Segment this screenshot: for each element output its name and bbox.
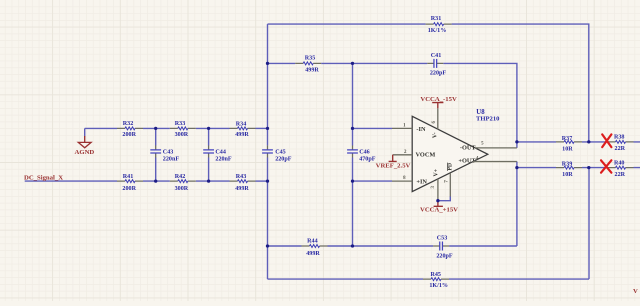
wire: R42-R43 bbox=[196, 180, 230, 182]
wire: pin7 to pin3 power jog bbox=[438, 197, 450, 201]
svg-text:10R: 10R bbox=[562, 172, 573, 178]
capacitor C53 bbox=[433, 235, 453, 259]
junction (352.5,246) bbox=[351, 244, 354, 247]
svg-text:R34: R34 bbox=[236, 122, 247, 128]
resistor R42 bbox=[170, 174, 196, 192]
svg-text:470pF: 470pF bbox=[359, 156, 376, 162]
junction (267.5,246) bbox=[266, 244, 269, 247]
junction (208.6,181.1) bbox=[207, 179, 210, 182]
svg-text:C43: C43 bbox=[163, 149, 174, 155]
svg-text:R38: R38 bbox=[614, 135, 625, 141]
wire: R44/C53 row bbox=[268, 245, 517, 247]
pin 8 +IN bbox=[392, 176, 412, 181]
svg-text:PD: PD bbox=[447, 163, 453, 171]
svg-text:-OUT: -OUT bbox=[460, 145, 477, 152]
junction (516.9,141.9) bbox=[515, 140, 518, 143]
svg-text:R35: R35 bbox=[305, 55, 316, 61]
wire: R45 row right vertical up to +OUT row bbox=[588, 168, 590, 280]
op-amp U8 designator labels bbox=[476, 109, 500, 123]
wire: C46 junction to +IN pin bbox=[353, 180, 393, 182]
svg-text:VCCA_-15V: VCCA_-15V bbox=[420, 96, 457, 103]
power port VREF_2.5V bbox=[376, 155, 411, 170]
resistor R44 bbox=[302, 239, 328, 258]
svg-text:C46: C46 bbox=[359, 149, 370, 155]
svg-text:THP210: THP210 bbox=[476, 115, 500, 122]
svg-text:10R: 10R bbox=[562, 147, 573, 153]
capacitor C44 bbox=[203, 145, 232, 162]
capacitor C45 bbox=[262, 145, 292, 162]
svg-text:VREF_2.5V: VREF_2.5V bbox=[376, 162, 411, 169]
wire: R35 to C41 bbox=[321, 62, 427, 64]
svg-text:DC_Signal_X: DC_Signal_X bbox=[24, 175, 63, 182]
wire: top feedback R31 run, right segment + right vertical to -OUT row bbox=[452, 24, 589, 142]
wire: R45 bottom row bbox=[268, 278, 590, 280]
junction (352.5,128.4) bbox=[351, 127, 354, 130]
svg-text:R40: R40 bbox=[614, 160, 625, 166]
pin 5 -OUT bbox=[475, 142, 517, 148]
svg-text:499R: 499R bbox=[306, 251, 320, 257]
svg-text:R37: R37 bbox=[562, 136, 573, 142]
junction (208.6,128.4) bbox=[207, 127, 210, 130]
svg-text:AGND: AGND bbox=[75, 149, 95, 156]
junction (437.9,200.7) bbox=[436, 199, 439, 202]
no-ERC marker X1 (R38) bbox=[602, 134, 611, 147]
svg-text:R43: R43 bbox=[236, 174, 247, 180]
wire: R34 to C45 junction bbox=[256, 127, 268, 129]
svg-text:300R: 300R bbox=[175, 132, 189, 138]
junction (155.7,181.1) bbox=[154, 179, 157, 182]
svg-text:+IN: +IN bbox=[416, 178, 427, 185]
svg-text:V+: V+ bbox=[433, 169, 439, 177]
svg-text:VOCM: VOCM bbox=[416, 151, 436, 158]
svg-text:R41: R41 bbox=[123, 174, 134, 180]
wire: C44 vertical bbox=[208, 128, 210, 181]
resistor R32 bbox=[117, 121, 143, 138]
svg-text:200R: 200R bbox=[122, 186, 136, 192]
svg-text:-IN: -IN bbox=[416, 126, 426, 133]
power port VCCA_+15V (bottom) bbox=[420, 201, 458, 214]
junction (267.5,181.1) bbox=[266, 179, 269, 182]
junction (155.7,128.4) bbox=[154, 127, 157, 130]
resistor R43 bbox=[230, 174, 256, 192]
pin 1 -IN bbox=[392, 123, 412, 128]
svg-text:499R: 499R bbox=[235, 132, 249, 138]
svg-text:C53: C53 bbox=[437, 235, 448, 241]
capacitor C41 bbox=[427, 53, 446, 77]
wire: AGND stub vertical bbox=[84, 128, 86, 136]
svg-text:R42: R42 bbox=[175, 174, 186, 180]
svg-text:C41: C41 bbox=[431, 53, 442, 59]
resistor R34 bbox=[230, 122, 256, 139]
svg-text:300R: 300R bbox=[175, 186, 189, 192]
wire: R32-R33 bbox=[143, 127, 170, 129]
pin 3 PD bottom bbox=[431, 179, 438, 201]
resistor R45 bbox=[423, 272, 449, 289]
resistor R39 bbox=[556, 161, 582, 178]
capacitor C43 bbox=[150, 145, 179, 162]
ground AGND bbox=[75, 136, 95, 156]
wire: +OUT row bbox=[517, 167, 640, 169]
junction (588.8,141.9) bbox=[587, 140, 590, 143]
junction (267.5,63.4) bbox=[266, 62, 269, 65]
wire: -IN row from AGND corner to R32 bbox=[85, 127, 117, 129]
svg-text:C44: C44 bbox=[215, 149, 226, 155]
junction (516.9,167.6) bbox=[515, 166, 518, 169]
junction (352.5,63.4) bbox=[351, 62, 354, 65]
svg-text:R44: R44 bbox=[307, 239, 318, 245]
power port VCCA_-15V (top) bbox=[420, 96, 457, 108]
wire: C41 to corner, down to -OUT pin bbox=[443, 63, 517, 147]
wire: R41-R42 bbox=[143, 180, 170, 182]
svg-text:R32: R32 bbox=[123, 121, 134, 127]
wire: C46 junction to -IN pin bbox=[353, 127, 393, 129]
resistor R37 bbox=[556, 136, 582, 153]
wire: C53 corner up to +OUT pin bbox=[516, 162, 518, 247]
wire: -OUT row bbox=[517, 141, 640, 143]
wire: R35/C41 feedback row left bbox=[268, 62, 296, 64]
wire: C46 vertical bus x=352.5 bbox=[352, 63, 354, 246]
svg-text:V: V bbox=[633, 288, 638, 295]
resistor R41 bbox=[117, 174, 143, 192]
no-ERC marker X2 (R40) bbox=[601, 160, 611, 172]
svg-text:220pF: 220pF bbox=[430, 70, 447, 76]
svg-text:200R: 200R bbox=[122, 132, 136, 138]
svg-text:499R: 499R bbox=[235, 186, 249, 192]
op-amp U8 THP210 body bbox=[412, 116, 488, 191]
svg-text:R31: R31 bbox=[431, 16, 442, 22]
svg-text:1K/1%: 1K/1% bbox=[428, 28, 447, 34]
wire: left main vertical bus x=267.5 (top part, above C45) bbox=[267, 24, 269, 145]
pin 6 V- top bbox=[432, 108, 438, 129]
svg-text:V-: V- bbox=[433, 132, 439, 138]
svg-text:1K/1%: 1K/1% bbox=[429, 283, 448, 289]
pin 4 +OUT bbox=[473, 157, 517, 162]
capacitor C46 bbox=[347, 145, 376, 162]
resistor R35 bbox=[295, 55, 321, 73]
svg-text:R45: R45 bbox=[430, 272, 441, 278]
pin 2 VOCM bbox=[393, 150, 413, 155]
resistor R31 bbox=[426, 16, 452, 34]
svg-text:220pF: 220pF bbox=[275, 156, 292, 162]
svg-text:22R: 22R bbox=[615, 146, 626, 152]
svg-text:220pF: 220pF bbox=[436, 253, 453, 259]
wire: top feedback R31 run, left segment bbox=[268, 23, 426, 25]
svg-text:499R: 499R bbox=[305, 68, 319, 74]
wire: C43 vertical bbox=[155, 128, 157, 181]
svg-text:R39: R39 bbox=[562, 161, 573, 167]
junction (352.5,181.1) bbox=[351, 179, 354, 182]
wire: R43 to C45 junction (bottom) bbox=[256, 180, 268, 182]
junction (267.5,128.4) bbox=[266, 127, 269, 130]
svg-text:R33: R33 bbox=[175, 121, 186, 127]
svg-text:22R: 22R bbox=[615, 172, 626, 178]
svg-text:VCCA_+15V: VCCA_+15V bbox=[420, 207, 458, 214]
wire: left main vertical bus x=267.5 (bottom part, below C45) bbox=[267, 157, 269, 279]
svg-text:220nF: 220nF bbox=[215, 156, 232, 162]
wire: R33-R34 bbox=[196, 127, 230, 129]
svg-text:C45: C45 bbox=[275, 149, 286, 155]
resistor R38 bbox=[608, 135, 634, 152]
junction (588.8,167.6) bbox=[587, 166, 590, 169]
svg-text:220nF: 220nF bbox=[163, 156, 180, 162]
resistor R40 bbox=[608, 160, 634, 178]
pin 7 V+ bottom bbox=[445, 173, 451, 197]
resistor R33 bbox=[170, 121, 196, 138]
wire: +IN row from DC_Signal_X to R41 bbox=[25, 180, 117, 182]
